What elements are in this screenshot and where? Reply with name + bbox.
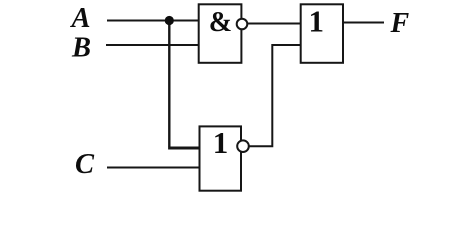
svg-text:1: 1 (213, 125, 229, 160)
wire U2 output to F (343, 22, 384, 24)
svg-text:&: & (209, 7, 232, 38)
nor gate U3 body (200, 126, 242, 190)
wire A to gate U1 (107, 20, 199, 22)
junction dot on wire A (165, 16, 174, 25)
svg-text:A: A (70, 3, 91, 34)
svg-text:F: F (390, 8, 410, 39)
wire C to gate U3 (107, 167, 199, 169)
svg-text:1: 1 (309, 4, 325, 39)
or gate U2 body (301, 4, 343, 63)
gate U3 output inversion bubble (237, 140, 249, 152)
wire branch from node A down to gate U3 (168, 21, 170, 147)
svg-text:C: C (75, 149, 95, 180)
wire B to gate U1 (106, 44, 199, 46)
wire U1 output to U2 input (246, 23, 301, 25)
svg-text:B: B (71, 33, 91, 64)
gate U1 output inversion bubble (237, 19, 248, 30)
wire U3 output up to U2 lower input (248, 45, 301, 146)
nand gate U1 body (199, 4, 242, 63)
wire into gate U3 upper input (168, 147, 199, 150)
